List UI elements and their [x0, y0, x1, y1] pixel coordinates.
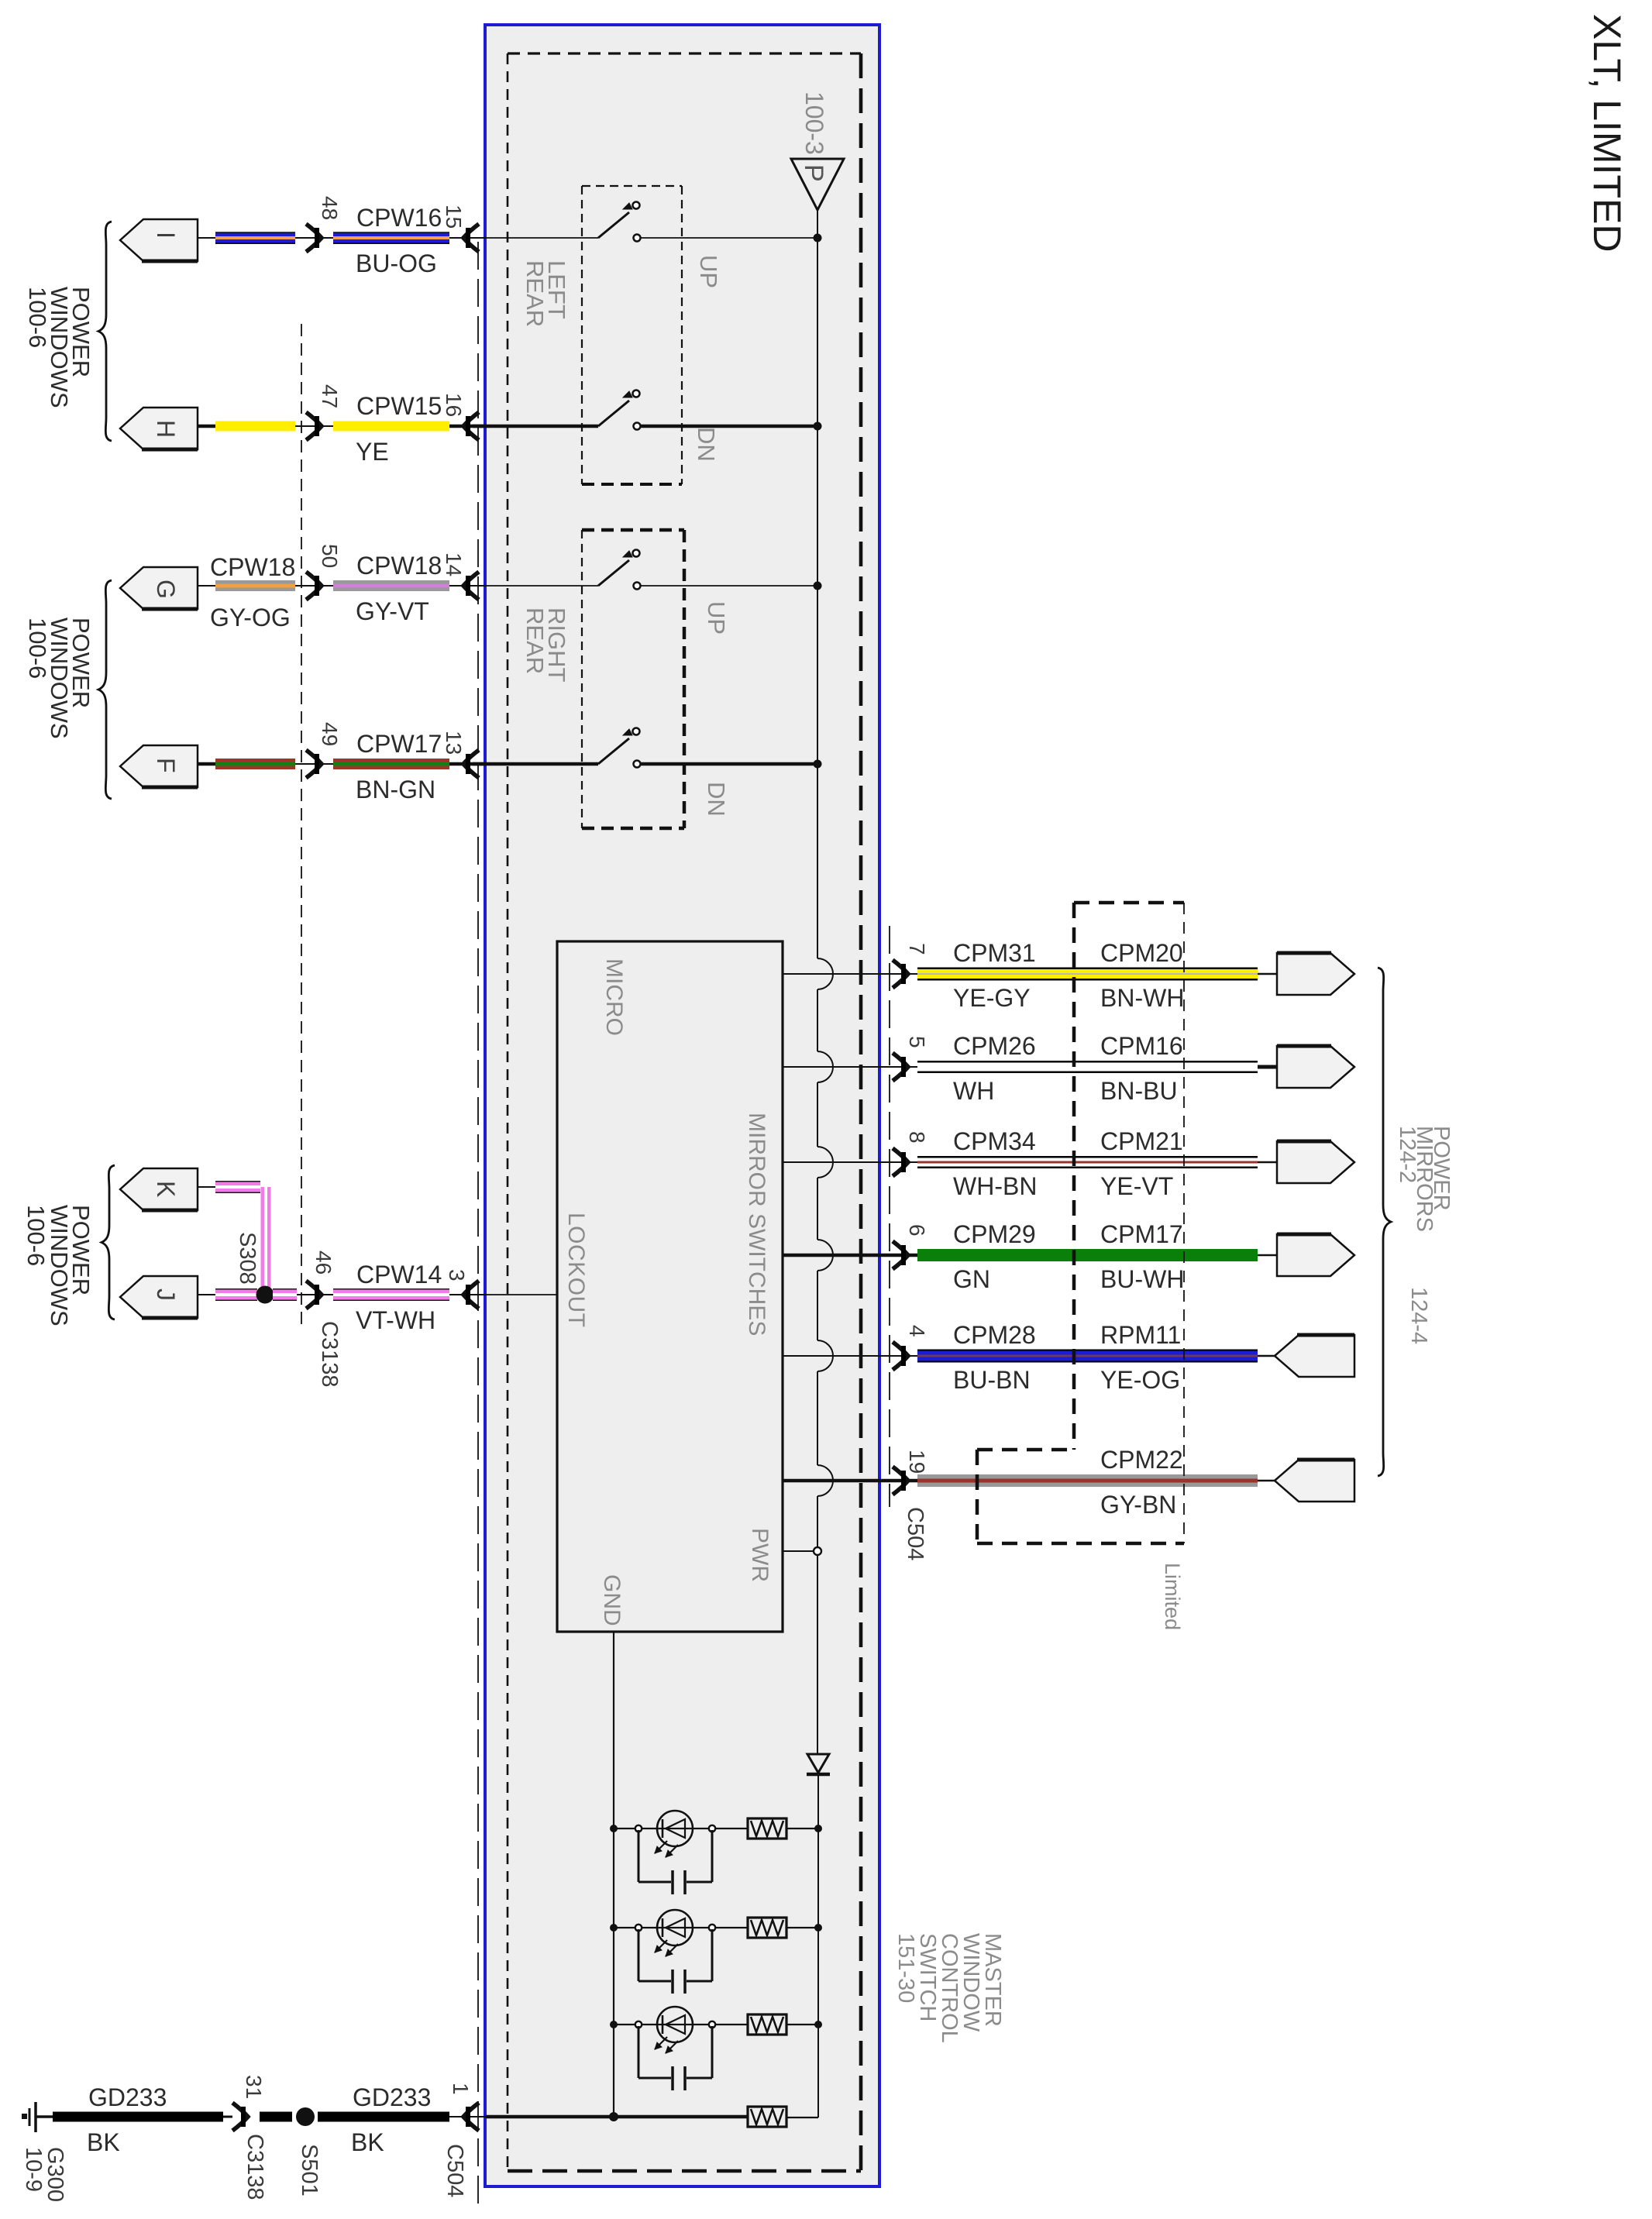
svg-text:14: 14	[442, 552, 466, 576]
svg-text:K: K	[152, 1181, 180, 1197]
svg-text:4: 4	[905, 1325, 929, 1337]
LED circle	[657, 1910, 693, 1945]
svg-text:124-2: 124-2	[1395, 1126, 1420, 1183]
svg-text:PWR: PWR	[747, 1528, 773, 1582]
svg-text:CPM31: CPM31	[953, 939, 1036, 967]
node	[635, 1925, 642, 1931]
svg-text:C504: C504	[903, 1507, 928, 1560]
svg-text:GN: GN	[953, 1265, 990, 1293]
splice arrow 48	[306, 224, 322, 252]
svg-text:LOCKOUT: LOCKOUT	[563, 1213, 589, 1328]
svg-text:CPW15: CPW15	[356, 392, 442, 420]
wire CPM28 bu-bn	[917, 1350, 1258, 1363]
svg-text:YE-VT: YE-VT	[1100, 1172, 1173, 1200]
wire	[473, 585, 598, 587]
switch lever	[598, 560, 629, 586]
connector pin mirror row 4	[1275, 1335, 1354, 1377]
svg-text:CPM21: CPM21	[1100, 1127, 1183, 1155]
svg-text:CPW17: CPW17	[356, 730, 442, 758]
wire	[1258, 973, 1279, 975]
connector pin mirror row 6	[1277, 1234, 1354, 1276]
junction	[814, 582, 822, 590]
connector pin mirror row 7	[1277, 953, 1354, 995]
splice arrow 31	[223, 2116, 232, 2118]
connector arrow	[893, 1467, 908, 1495]
wire segment YE	[215, 421, 295, 432]
wire	[198, 585, 215, 587]
svg-text:GY-VT: GY-VT	[356, 597, 429, 625]
lockout wire	[477, 1294, 557, 1295]
svg-text:8: 8	[905, 1131, 929, 1144]
wire CPW15 YE	[333, 421, 449, 432]
wire VT-WH from K	[198, 1186, 215, 1188]
wire	[641, 585, 817, 587]
GND wire	[613, 1632, 614, 2118]
switch contacts	[633, 550, 640, 557]
svg-text:YE-OG: YE-OG	[1100, 1366, 1180, 1394]
wire	[786, 1927, 818, 1928]
LED circle	[657, 1811, 693, 1846]
wire	[693, 2024, 748, 2025]
connector pin mirror row 5	[1277, 1046, 1354, 1088]
junction	[814, 422, 822, 431]
svg-text:13: 13	[442, 731, 466, 755]
svg-text:GND: GND	[599, 1574, 625, 1626]
wire	[614, 2024, 657, 2025]
svg-text:50: 50	[318, 544, 342, 568]
svg-text:7: 7	[905, 943, 929, 955]
svg-text:G: G	[152, 580, 180, 599]
connector J	[120, 1276, 198, 1318]
svg-text:CPM34: CPM34	[953, 1127, 1036, 1155]
wire from mirror switches	[783, 1479, 917, 1483]
node	[635, 2021, 642, 2028]
svg-text:DN: DN	[703, 782, 730, 817]
svg-text:YE-GY: YE-GY	[953, 984, 1031, 1012]
wire segment BN-GN	[215, 759, 295, 769]
wire	[1258, 1065, 1279, 1069]
capacitor	[671, 1870, 674, 1894]
resistor	[748, 1818, 786, 1839]
svg-text:C504: C504	[442, 2144, 467, 2197]
wire CPW17 BN-GN	[333, 759, 449, 769]
switch contacts	[633, 202, 640, 209]
svg-text:MIRROR SWITCHES: MIRROR SWITCHES	[744, 1113, 769, 1336]
connector C504 dashed line (left)	[477, 242, 479, 2212]
ground wire inside box	[486, 2115, 749, 2119]
svg-text:46: 46	[311, 1251, 336, 1275]
svg-text:VT-WH: VT-WH	[356, 1306, 435, 1334]
svg-text:47: 47	[318, 384, 342, 408]
svg-text:F: F	[152, 758, 180, 773]
node	[635, 1825, 642, 1832]
svg-text:CPM16: CPM16	[1100, 1032, 1183, 1060]
svg-text:3: 3	[445, 1269, 469, 1282]
LED arrows	[655, 1841, 667, 1853]
wire	[198, 762, 215, 766]
svg-text:151-30: 151-30	[893, 1933, 918, 2003]
connector arrow	[449, 2116, 486, 2118]
connector pin mirror row 19	[1275, 1460, 1354, 1502]
wire GD233 BK	[318, 2112, 449, 2122]
svg-text:H: H	[152, 420, 180, 438]
svg-text:16: 16	[442, 393, 466, 417]
wire BK	[260, 2112, 292, 2122]
svg-text:I: I	[152, 232, 180, 239]
svg-text:BN-BU: BN-BU	[1100, 1077, 1178, 1105]
wire	[614, 1828, 657, 1829]
wire segment GY-OG	[215, 580, 295, 591]
wire	[198, 237, 215, 239]
svg-text:31: 31	[242, 2075, 266, 2099]
LED triangle	[666, 1918, 685, 1937]
svg-text:MICRO: MICRO	[601, 958, 627, 1036]
connector K	[120, 1168, 198, 1210]
LED arrows	[655, 2037, 667, 2049]
svg-text:124-4: 124-4	[1406, 1287, 1431, 1344]
wire CPW14 VT-WH	[333, 1288, 449, 1301]
svg-text:100-6: 100-6	[24, 287, 51, 348]
wire from mirror switches	[783, 1254, 917, 1257]
svg-text:S308: S308	[235, 1232, 260, 1285]
capacitor branch	[638, 1929, 640, 1981]
brace power windows (G,F)	[98, 580, 112, 799]
LED arrows	[655, 1940, 667, 1952]
connector arrow	[893, 1342, 908, 1370]
svg-text:100-3: 100-3	[800, 91, 828, 155]
svg-text:CPM22: CPM22	[1100, 1446, 1183, 1474]
wire	[641, 762, 817, 766]
wire CPM26 wh	[917, 1061, 1258, 1073]
wire CPM31 ye-gy	[917, 968, 1258, 981]
svg-text:CPM20: CPM20	[1100, 939, 1183, 967]
LED triangle	[666, 1819, 685, 1838]
connector G	[120, 567, 198, 609]
svg-text:YE: YE	[356, 438, 389, 466]
micro controller box	[557, 941, 783, 1632]
connector F	[120, 745, 198, 787]
svg-text:RPM11: RPM11	[1100, 1321, 1181, 1349]
diode	[807, 1754, 829, 1773]
right rear window switch box	[582, 528, 684, 532]
svg-text:XLT, LIMITED: XLT, LIMITED	[1585, 14, 1629, 252]
svg-text:48: 48	[318, 196, 342, 220]
svg-text:CPW16: CPW16	[356, 204, 442, 232]
svg-text:C3138: C3138	[317, 1321, 342, 1387]
svg-text:WH-BN: WH-BN	[953, 1172, 1037, 1200]
wire CPM29 gn	[917, 1249, 1258, 1261]
svg-text:5: 5	[905, 1036, 929, 1048]
brace power windows (I,H)	[98, 222, 112, 441]
wire	[693, 1828, 748, 1829]
svg-text:UP: UP	[703, 601, 730, 635]
wire GD233 BK	[53, 2112, 223, 2122]
ground symbol G300	[34, 2102, 37, 2132]
svg-text:CPW18: CPW18	[210, 553, 295, 581]
svg-text:BK: BK	[87, 2128, 120, 2156]
wire CPM22 gy-bn	[917, 1474, 1258, 1487]
wire	[473, 425, 598, 428]
PWR wire	[783, 1550, 814, 1552]
wire	[786, 2024, 818, 2025]
brace power windows (K,J)	[102, 1165, 115, 1319]
svg-text:BN-GN: BN-GN	[356, 776, 435, 803]
switch lever	[598, 212, 629, 238]
junction	[814, 234, 822, 243]
svg-text:REAR: REAR	[521, 607, 549, 674]
svg-text:BU-OG: BU-OG	[356, 249, 437, 277]
resistor	[748, 1918, 786, 1938]
svg-text:1: 1	[449, 2083, 473, 2095]
svg-text:P: P	[799, 164, 828, 182]
svg-text:GD233: GD233	[88, 2083, 167, 2111]
master window control switch blue box	[485, 25, 879, 2186]
wire from mirror switches	[783, 1066, 917, 1068]
wire CPW16 BU-OG	[333, 232, 449, 243]
connector arrow	[449, 585, 486, 587]
LED triangle	[666, 2015, 685, 2034]
svg-text:6: 6	[905, 1224, 929, 1237]
svg-text:C3138: C3138	[243, 2134, 267, 2200]
switch lever	[598, 738, 629, 764]
wire	[614, 1927, 657, 1928]
connector arrow	[449, 425, 486, 428]
wire CPM34 wh-bn	[917, 1156, 1258, 1168]
connector arrow	[449, 237, 486, 239]
connector C504 dashed line (right)	[889, 926, 890, 1507]
capacitor branch	[638, 2026, 640, 2078]
connector arrow	[893, 960, 908, 988]
svg-text:BN-WH: BN-WH	[1100, 984, 1184, 1012]
power symbol P	[791, 159, 844, 210]
splice S501	[296, 2107, 315, 2126]
wire VT-WH from J	[198, 1294, 215, 1295]
switch lever	[598, 401, 629, 426]
wire from mirror switches	[783, 1355, 917, 1357]
splice arrow 47	[306, 412, 322, 440]
connector H	[120, 408, 198, 449]
splice arrow 46	[306, 1281, 322, 1309]
connector arrow	[449, 1294, 486, 1295]
svg-text:CPW14: CPW14	[356, 1261, 442, 1288]
splice arrow 50	[306, 572, 322, 600]
capacitor	[671, 2066, 674, 2090]
wire	[198, 425, 215, 428]
wire	[641, 237, 817, 239]
wire	[786, 1828, 818, 1829]
PWR bus wire	[817, 210, 818, 958]
junction	[610, 1825, 618, 1832]
svg-text:CPM17: CPM17	[1100, 1220, 1183, 1248]
junction	[610, 2021, 618, 2028]
capacitor branch	[638, 1830, 640, 1882]
svg-text:GD233: GD233	[353, 2083, 431, 2111]
svg-text:CPM26: CPM26	[953, 1032, 1036, 1060]
svg-text:GY-BN: GY-BN	[1100, 1491, 1176, 1519]
wire from mirror switches	[783, 973, 917, 975]
svg-text:BK: BK	[351, 2128, 384, 2156]
svg-text:15: 15	[442, 205, 466, 229]
svg-text:CPW18: CPW18	[356, 552, 442, 580]
svg-text:19: 19	[905, 1450, 929, 1474]
svg-text:GY-OG: GY-OG	[210, 604, 291, 631]
wire from mirror switches	[783, 1161, 917, 1163]
switch contacts	[633, 390, 640, 397]
splice arrow 49	[306, 750, 322, 778]
svg-text:49: 49	[318, 722, 342, 746]
wire CPW18 GY-VT	[333, 580, 449, 591]
wire	[641, 425, 817, 428]
svg-text:BU-BN: BU-BN	[953, 1366, 1031, 1394]
svg-text:100-6: 100-6	[22, 1205, 50, 1266]
svg-text:J: J	[152, 1288, 180, 1301]
wire	[1258, 1355, 1279, 1357]
wire	[473, 762, 598, 766]
connector arrow	[893, 1241, 908, 1269]
connector C3138 dashed line	[301, 324, 302, 1331]
wire	[1258, 1480, 1279, 1482]
svg-text:CPM28: CPM28	[953, 1321, 1036, 1349]
connector arrow	[893, 1148, 908, 1176]
svg-text:100-6: 100-6	[24, 618, 51, 679]
svg-text:Limited: Limited	[1161, 1563, 1184, 1630]
svg-text:UP: UP	[695, 255, 722, 288]
option dashed box (mirror connector columns)	[1074, 901, 1184, 905]
svg-text:S501: S501	[297, 2144, 322, 2197]
svg-text:WH: WH	[953, 1077, 994, 1105]
connector arrow	[893, 1053, 908, 1081]
svg-text:CPM29: CPM29	[953, 1220, 1036, 1248]
junction	[610, 1924, 618, 1932]
brace power mirrors	[1378, 968, 1391, 1476]
wire	[473, 237, 598, 239]
svg-text:BU-WH: BU-WH	[1100, 1265, 1184, 1293]
wire	[693, 1927, 748, 1928]
svg-text:REAR: REAR	[521, 260, 549, 327]
wire segment BU-OG	[215, 232, 295, 243]
junction S308	[256, 1286, 274, 1304]
switch contacts	[633, 728, 640, 735]
connector I	[120, 219, 198, 261]
svg-text:DN: DN	[693, 427, 720, 462]
junction	[814, 760, 822, 769]
resistor	[748, 2107, 786, 2127]
gray component dashed box	[508, 52, 861, 54]
capacitor	[671, 1970, 674, 1994]
svg-text:10-9: 10-9	[21, 2147, 46, 2192]
LED circle	[657, 2007, 693, 2042]
connector arrow	[449, 762, 486, 766]
wire	[1258, 1161, 1279, 1164]
wire	[1258, 1254, 1279, 1257]
left rear window switch box	[582, 185, 682, 187]
connector pin mirror row 8	[1277, 1141, 1354, 1183]
resistor	[748, 2014, 786, 2035]
